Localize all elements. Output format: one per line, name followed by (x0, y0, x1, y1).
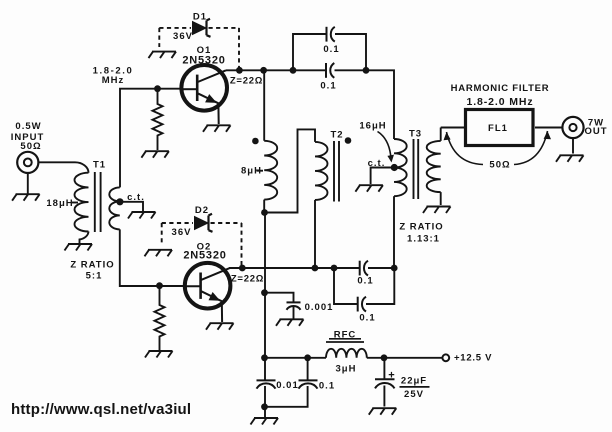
svg-text:22μF: 22μF (401, 376, 427, 387)
svg-text:0.1: 0.1 (357, 276, 373, 287)
svg-text:+12.5 V: +12.5 V (454, 353, 492, 364)
svg-text:0.01: 0.01 (276, 380, 299, 391)
svg-text:D2: D2 (195, 205, 209, 216)
svg-text:http://www.qsl.net/va3iul: http://www.qsl.net/va3iul (11, 401, 191, 418)
svg-text:18μH: 18μH (46, 198, 73, 209)
svg-text:2N5320: 2N5320 (183, 250, 226, 262)
svg-text:8μH: 8μH (241, 165, 262, 176)
svg-text:36V: 36V (172, 227, 192, 238)
svg-text:Z=22Ω: Z=22Ω (230, 76, 263, 87)
svg-text:50Ω: 50Ω (489, 160, 510, 171)
svg-text:0.1: 0.1 (323, 44, 339, 55)
svg-text:T2: T2 (330, 130, 343, 141)
svg-text:+: + (388, 369, 394, 381)
svg-text:16μH: 16μH (359, 121, 386, 132)
svg-text:RFC: RFC (334, 329, 357, 340)
svg-text:MHz: MHz (102, 75, 125, 86)
svg-text:0.1: 0.1 (320, 81, 336, 92)
svg-text:50Ω: 50Ω (20, 141, 41, 152)
svg-text:c.t.: c.t. (127, 192, 145, 203)
svg-text:c.t.: c.t. (368, 158, 386, 169)
svg-text:0.1: 0.1 (359, 313, 375, 324)
svg-text:T3: T3 (409, 129, 422, 140)
svg-text:Z=22Ω: Z=22Ω (231, 274, 264, 285)
svg-text:OUT: OUT (584, 126, 607, 137)
svg-text:D1: D1 (193, 12, 207, 23)
svg-text:Z RATIO: Z RATIO (399, 222, 443, 233)
svg-text:0.001: 0.001 (305, 302, 334, 313)
svg-text:T1: T1 (93, 160, 106, 171)
svg-text:3μH: 3μH (336, 364, 357, 375)
svg-text:0.5W: 0.5W (15, 121, 41, 132)
svg-text:HARMONIC FILTER: HARMONIC FILTER (451, 83, 550, 94)
svg-text:0.1: 0.1 (319, 381, 335, 392)
svg-text:Z RATIO: Z RATIO (70, 259, 114, 270)
svg-text:1.8-2.0 MHz: 1.8-2.0 MHz (466, 96, 533, 108)
svg-text:5:1: 5:1 (86, 271, 103, 282)
svg-text:2N5320: 2N5320 (182, 55, 225, 67)
svg-text:25V: 25V (404, 389, 424, 400)
svg-text:1.13:1: 1.13:1 (407, 234, 440, 245)
svg-text:FL1: FL1 (488, 123, 508, 134)
svg-text:36V: 36V (173, 31, 193, 42)
